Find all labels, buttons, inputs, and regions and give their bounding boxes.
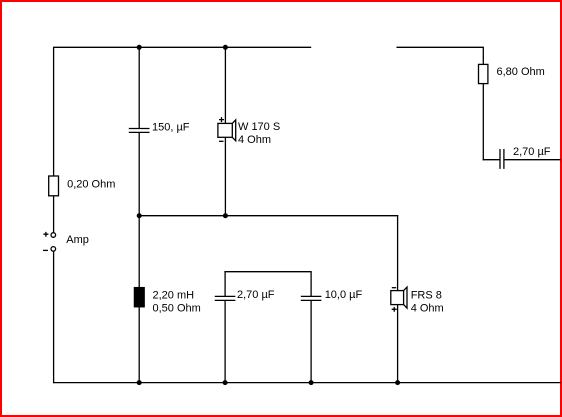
capacitor C4 2,70 µF plates	[499, 149, 501, 169]
wire: middle horizontal bus	[139, 215, 398, 217]
speaker SP1 W 170 S box	[218, 123, 232, 137]
wire: R2 down to corner	[482, 84, 484, 161]
wire: corner to capacitor C4	[483, 159, 500, 161]
svg-text:2,20 mH: 2,20 mH	[153, 289, 195, 301]
svg-text:2,70 µF: 2,70 µF	[237, 289, 275, 301]
wire: node G vertical (top bus down to resistor R2)	[482, 47, 484, 65]
speaker SP1 horn	[232, 120, 235, 141]
capacitor C2 2,70 µF plates	[215, 295, 236, 297]
wire: R1 to amp + terminal	[53, 196, 55, 233]
wire: C2 upper lead	[224, 271, 226, 296]
wire: node F vertical (middle bus down to speaker SP2)	[397, 216, 399, 291]
resistor R2 6,80 Ohm	[479, 64, 488, 83]
speaker SP2 horn	[404, 287, 407, 308]
capacitor C3 10,0 µF plates	[301, 295, 322, 297]
wire: capacitor box top link	[224, 271, 311, 273]
junction dot: top bus / node C	[223, 45, 228, 50]
wire: L1 down to bottom bus	[138, 307, 140, 384]
svg-text:Amp: Amp	[66, 234, 89, 246]
speaker SP1 - mark	[219, 140, 224, 142]
wire: C1 down to middle bus and inductor L1	[138, 132, 140, 287]
wire: SP2 down to bottom bus	[397, 305, 399, 384]
wire: top-left horizontal bus	[54, 46, 312, 48]
svg-text:W 170 S: W 170 S	[238, 121, 280, 133]
svg-text:2,70 µF: 2,70 µF	[513, 146, 551, 158]
wire: node B top (bus to capacitor C1)	[138, 47, 140, 129]
wire: bottom horizontal bus	[54, 382, 561, 384]
wire: amp - terminal down to bottom bus	[53, 251, 55, 383]
wire: top-right horizontal segment	[397, 46, 484, 48]
junction dot: bottom bus / SP2	[395, 380, 400, 385]
wire: left rail upper (down to resistor R1)	[53, 47, 55, 176]
junction dot: bottom bus / L1	[137, 380, 142, 385]
wire: C4 to right border	[504, 159, 561, 161]
svg-text:FRS 8: FRS 8	[411, 289, 442, 301]
junction dot: bottom bus / C3	[309, 380, 314, 385]
svg-text:0,20 Ohm: 0,20 Ohm	[67, 179, 115, 191]
amp - mark	[43, 249, 48, 251]
wire: C2 lower lead to bottom bus	[224, 300, 226, 383]
wire: node C top (bus to speaker SP1)	[224, 47, 226, 124]
svg-text:4 Ohm: 4 Ohm	[238, 134, 271, 146]
speaker SP2 + mark	[392, 307, 397, 312]
svg-text:6,80 Ohm: 6,80 Ohm	[497, 66, 545, 78]
junction dot: bottom bus / C2	[223, 380, 228, 385]
svg-text:10,0 µF: 10,0 µF	[325, 289, 363, 301]
junction dot: top bus / node B	[137, 45, 142, 50]
speaker SP2 FRS 8 box	[391, 291, 404, 305]
amp + terminal circle	[51, 233, 56, 238]
junction dot: middle bus / node C	[223, 213, 228, 218]
wire: C3 upper lead	[310, 271, 312, 296]
svg-text:0,50 Ohm: 0,50 Ohm	[153, 302, 201, 314]
speaker SP1 + mark	[219, 117, 224, 122]
speaker SP2 - mark	[392, 287, 396, 289]
wire: C3 lower lead to bottom bus	[310, 300, 312, 383]
amp - terminal circle	[51, 247, 56, 252]
inductor L1 2,20 mH 0,50 Ohm	[134, 288, 144, 307]
capacitor C1 150 µF plates	[129, 128, 150, 130]
svg-text:150, µF: 150, µF	[152, 121, 190, 133]
resistor R1 0,20 Ohm	[49, 176, 59, 196]
svg-text:4 Ohm: 4 Ohm	[411, 302, 444, 314]
wire: SP1 down to middle bus	[224, 137, 226, 215]
amp + mark	[43, 232, 48, 237]
junction dot: middle bus / node B	[137, 213, 142, 218]
